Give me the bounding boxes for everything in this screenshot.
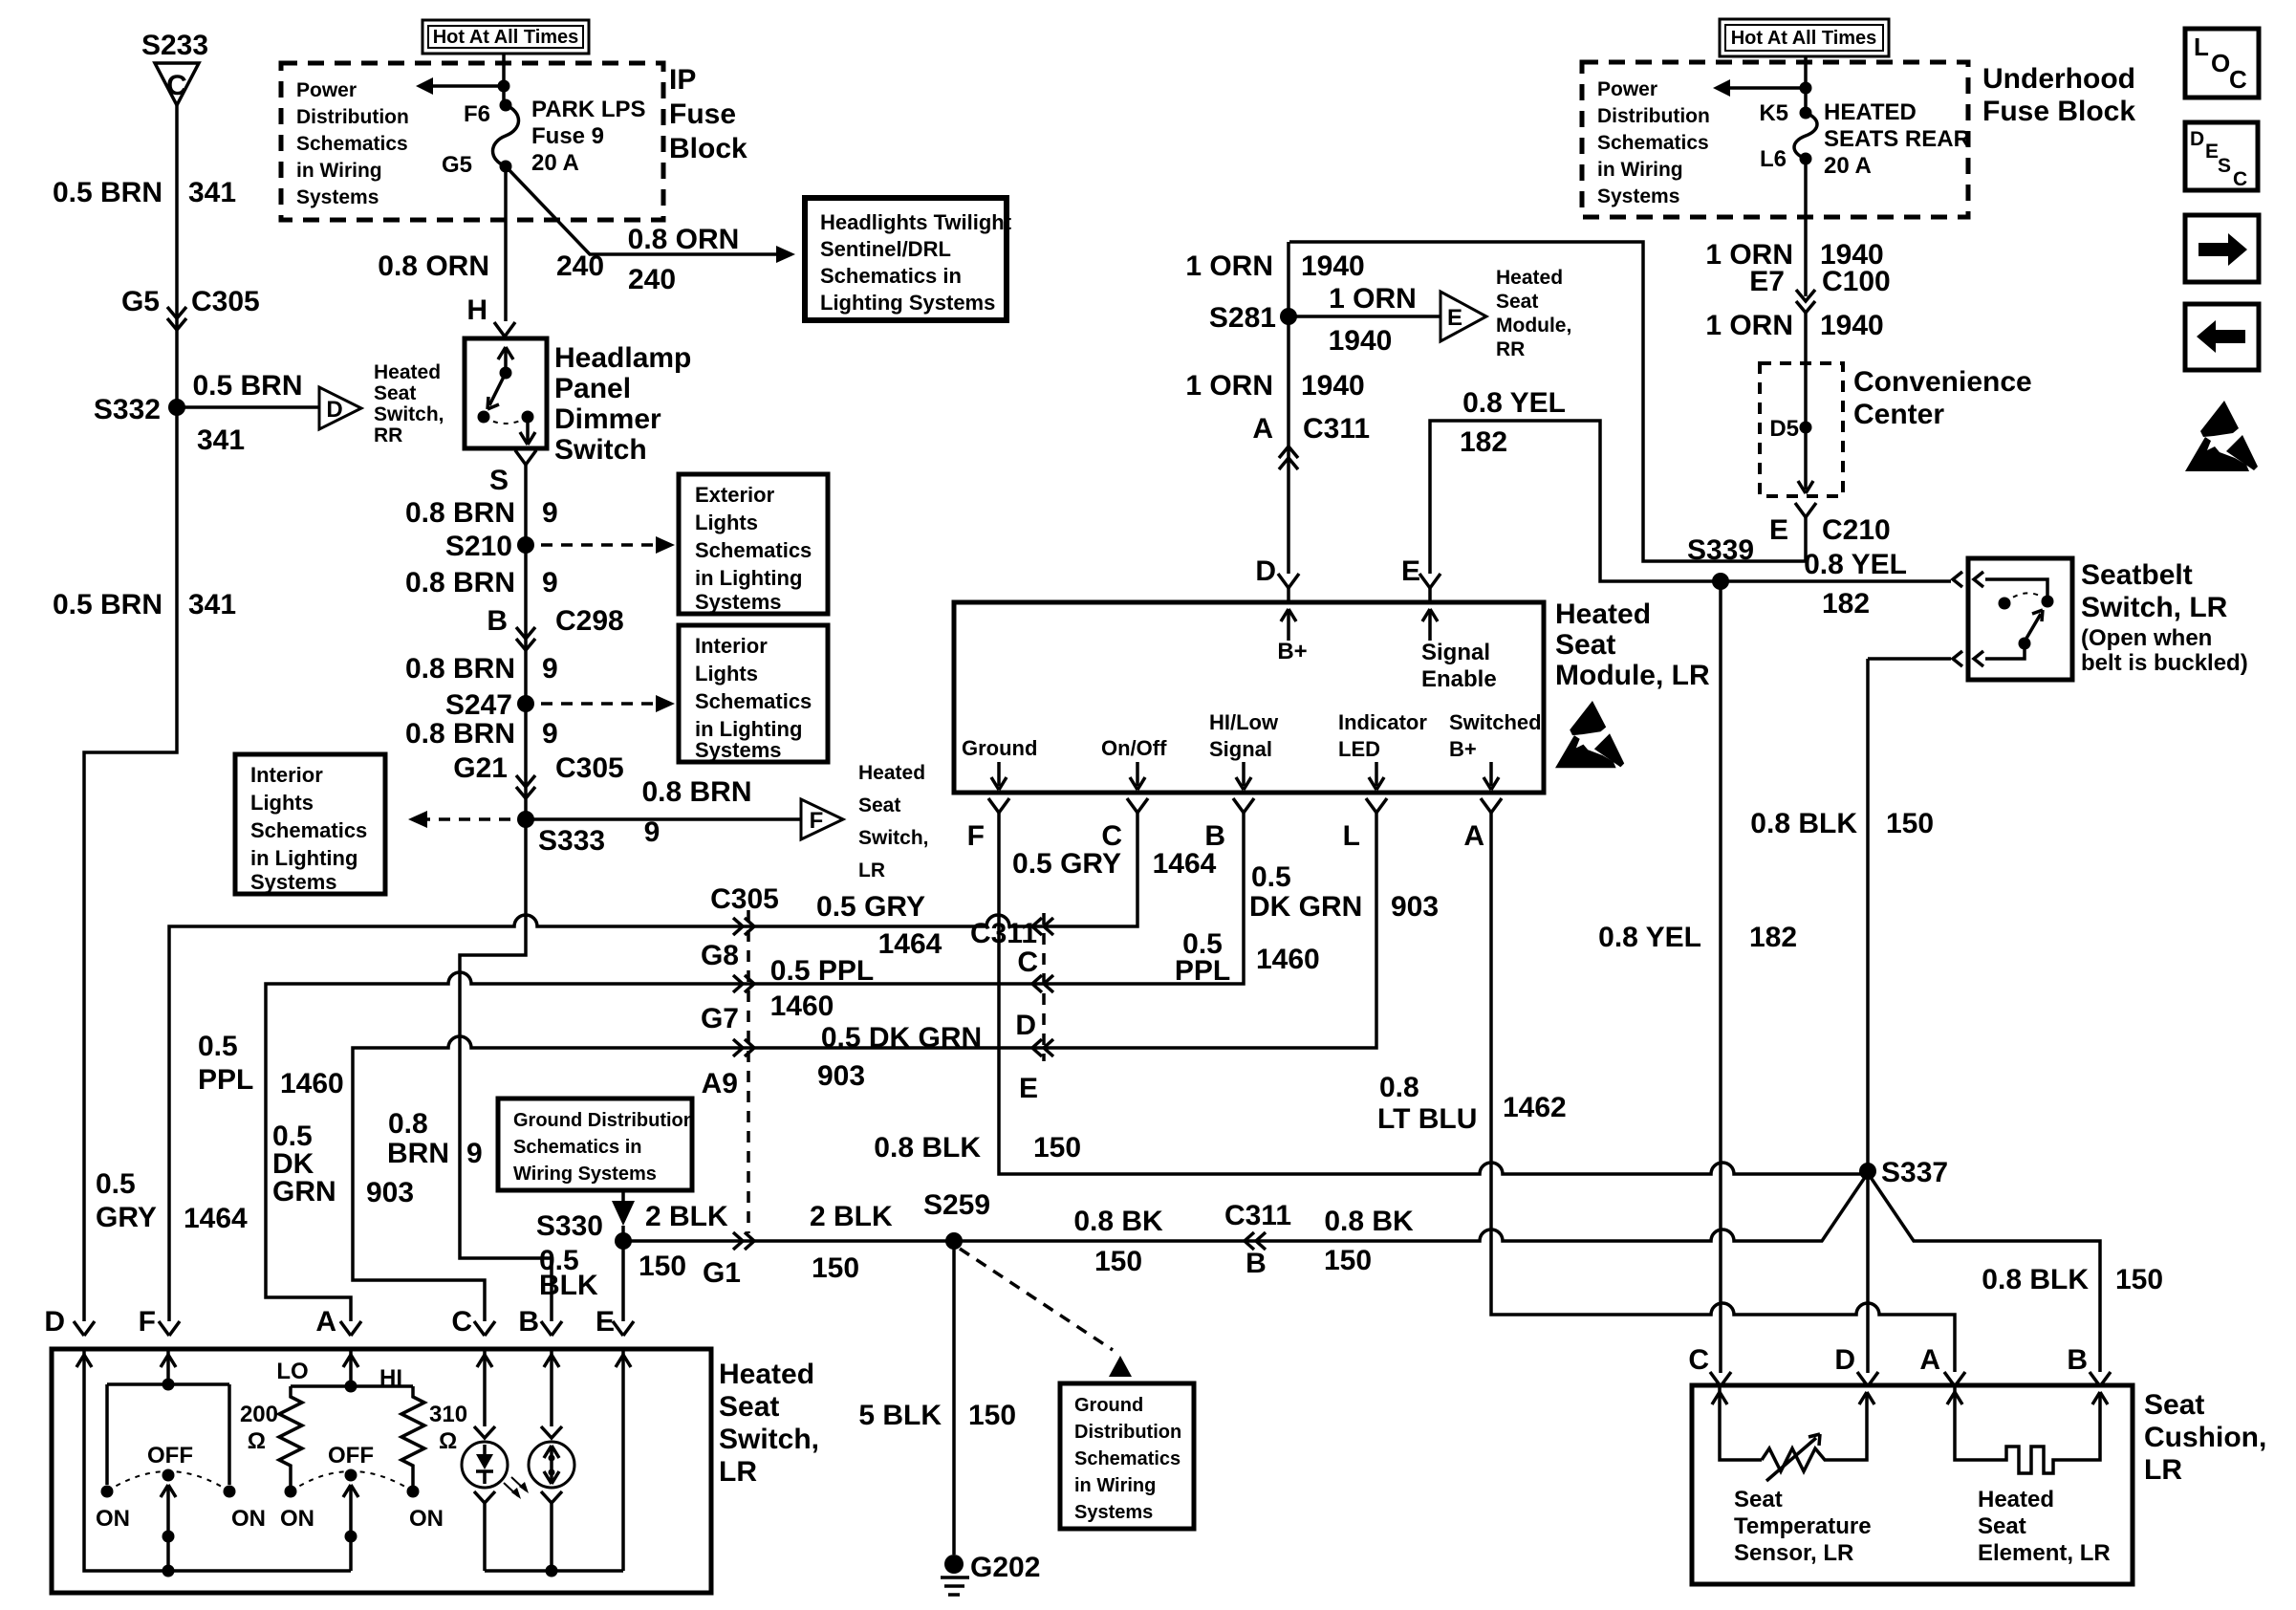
svg-text:Sentinel/DRL: Sentinel/DRL [820,237,951,261]
svg-text:Seat: Seat [374,382,416,404]
svg-text:C100: C100 [1822,266,1891,297]
svg-text:1464: 1464 [184,1203,248,1234]
svg-text:Module,: Module, [1496,315,1571,337]
svg-text:A: A [1463,820,1484,852]
svg-text:C311: C311 [1303,413,1370,445]
svg-text:9: 9 [466,1138,483,1169]
svg-text:S233: S233 [141,30,208,61]
svg-text:D: D [2190,128,2204,150]
svg-text:Switch,: Switch, [858,827,929,849]
svg-text:LED: LED [1338,737,1380,761]
svg-text:Switched: Switched [1449,710,1542,734]
svg-text:Schematics: Schematics [1597,132,1709,154]
svg-text:ON: ON [231,1506,266,1532]
svg-text:Exterior: Exterior [695,483,775,507]
svg-text:2 BLK: 2 BLK [810,1201,893,1232]
svg-text:Fuse: Fuse [669,98,736,130]
svg-text:Ω: Ω [248,1428,266,1454]
svg-text:Seat: Seat [719,1391,779,1423]
svg-text:SEATS REAR: SEATS REAR [1824,126,1970,152]
svg-text:G5: G5 [442,152,472,178]
svg-text:Sensor, LR: Sensor, LR [1734,1540,1853,1566]
svg-text:Schematics: Schematics [1074,1448,1180,1469]
svg-text:PARK LPS: PARK LPS [531,97,646,122]
svg-text:150: 150 [639,1251,686,1282]
svg-text:A: A [1252,413,1273,445]
svg-text:PPL: PPL [198,1064,253,1096]
svg-text:0.8 ORN: 0.8 ORN [378,250,489,282]
svg-text:D: D [1834,1344,1855,1376]
svg-text:0.5 DK GRN: 0.5 DK GRN [821,1022,982,1054]
svg-text:C: C [1688,1344,1709,1376]
svg-text:G1: G1 [703,1257,741,1289]
svg-text:Ω: Ω [439,1428,457,1454]
svg-text:1 ORN: 1 ORN [1185,370,1273,402]
svg-text:E: E [2205,141,2219,163]
svg-text:Heated: Heated [374,361,441,383]
svg-text:RR: RR [1496,338,1525,360]
svg-text:S281: S281 [1209,302,1276,334]
svg-text:150: 150 [968,1400,1016,1431]
svg-text:RR: RR [374,424,402,446]
svg-text:903: 903 [817,1060,865,1092]
svg-text:Element, LR: Element, LR [1978,1540,2111,1566]
svg-text:S: S [2218,155,2231,177]
svg-text:in Wiring: in Wiring [1597,159,1683,181]
svg-text:G8: G8 [701,940,739,971]
svg-text:Schematics: Schematics [296,133,408,155]
svg-text:in Wiring: in Wiring [296,160,382,182]
svg-text:LR: LR [2144,1454,2182,1486]
svg-text:0.5 GRY: 0.5 GRY [1012,848,1121,880]
svg-text:0.8 BK: 0.8 BK [1324,1206,1414,1237]
svg-text:Lights: Lights [695,511,758,534]
svg-text:200: 200 [240,1402,278,1427]
svg-text:9: 9 [542,653,558,685]
svg-text:Fuse 9: Fuse 9 [531,123,604,149]
svg-text:C: C [2233,168,2247,190]
svg-text:Systems: Systems [695,590,782,614]
svg-text:K5: K5 [1759,100,1788,126]
svg-text:GRN: GRN [272,1176,336,1207]
svg-text:Seat: Seat [858,794,900,816]
svg-text:C: C [2229,65,2247,94]
svg-text:Panel: Panel [554,373,631,404]
svg-text:E: E [1019,1073,1038,1104]
svg-text:O: O [2211,49,2230,77]
svg-text:Headlamp: Headlamp [554,342,691,374]
svg-text:LT BLU: LT BLU [1377,1103,1477,1135]
svg-text:20 A: 20 A [1824,153,1872,179]
svg-text:Module, LR: Module, LR [1555,660,1710,691]
svg-text:2 BLK: 2 BLK [645,1201,728,1232]
svg-text:C311: C311 [970,918,1037,949]
svg-text:E: E [1401,555,1420,587]
svg-text:G202: G202 [970,1552,1040,1583]
svg-text:B: B [518,1306,539,1338]
svg-text:S: S [489,465,509,496]
svg-text:PPL: PPL [1175,955,1230,987]
svg-text:Lights: Lights [250,791,314,815]
svg-text:D: D [44,1306,65,1338]
svg-text:341: 341 [188,177,236,208]
svg-text:OFF: OFF [328,1443,374,1469]
svg-text:9: 9 [542,497,558,529]
svg-text:182: 182 [1460,426,1507,458]
svg-text:903: 903 [366,1177,414,1208]
svg-text:0.8 BLK: 0.8 BLK [1982,1264,2089,1295]
svg-text:0.8: 0.8 [388,1108,428,1140]
svg-text:HI: HI [379,1365,402,1391]
svg-text:Seat: Seat [2144,1389,2204,1421]
svg-text:903: 903 [1391,891,1439,923]
svg-text:Switch, LR: Switch, LR [2081,592,2228,623]
svg-text:1 ORN: 1 ORN [1185,250,1273,282]
svg-text:Hot At All Times: Hot At All Times [1731,28,1877,49]
svg-text:1464: 1464 [1153,848,1217,880]
svg-text:1940: 1940 [1301,250,1365,282]
svg-text:Distribution: Distribution [1074,1422,1181,1443]
svg-text:A: A [315,1306,336,1338]
svg-text:Heated: Heated [719,1359,814,1390]
svg-text:1940: 1940 [1329,325,1393,357]
svg-text:0.5 BRN: 0.5 BRN [53,177,162,208]
svg-text:150: 150 [1886,808,1934,839]
svg-text:Ground Distribution: Ground Distribution [513,1110,695,1131]
svg-text:S330: S330 [536,1210,603,1242]
svg-text:1460: 1460 [770,990,834,1022]
svg-text:Indicator: Indicator [1338,710,1427,734]
svg-text:B+: B+ [1449,737,1477,761]
svg-text:S259: S259 [923,1189,990,1221]
svg-text:S332: S332 [94,394,161,425]
svg-text:LR: LR [858,859,885,881]
svg-text:Switch: Switch [554,434,647,466]
svg-text:0.5: 0.5 [96,1168,136,1200]
svg-text:Fuse Block: Fuse Block [1982,96,2135,127]
svg-text:Power: Power [1597,78,1657,100]
svg-text:150: 150 [2115,1264,2163,1295]
svg-text:E: E [596,1306,615,1338]
svg-text:Seat: Seat [1978,1513,2026,1539]
svg-text:Power: Power [296,79,357,101]
svg-text:0.8 YEL: 0.8 YEL [1462,387,1566,419]
svg-text:L: L [1343,820,1360,852]
svg-text:G7: G7 [701,1003,739,1034]
svg-text:OFF: OFF [147,1443,193,1469]
svg-text:C311: C311 [1224,1200,1291,1231]
svg-text:0.5: 0.5 [198,1031,238,1062]
svg-text:150: 150 [1324,1245,1372,1276]
svg-text:Seat: Seat [1734,1487,1783,1512]
svg-text:A9: A9 [702,1068,738,1099]
svg-text:ON: ON [96,1506,130,1532]
svg-text:in Lighting: in Lighting [250,846,357,870]
svg-text:LR: LR [719,1456,757,1488]
svg-text:1 ORN: 1 ORN [1329,283,1417,315]
svg-text:C305: C305 [710,883,779,915]
svg-text:Dimmer: Dimmer [554,403,661,435]
svg-text:182: 182 [1822,588,1870,620]
svg-text:Interior: Interior [695,634,768,658]
svg-text:0.5 PPL: 0.5 PPL [770,955,874,987]
svg-text:1 ORN: 1 ORN [1705,310,1793,341]
svg-text:F6: F6 [464,101,490,127]
svg-text:Seat: Seat [1555,629,1615,661]
svg-text:Lighting Systems: Lighting Systems [820,291,995,315]
svg-text:0.8 BRN: 0.8 BRN [641,776,751,808]
svg-text:S210: S210 [445,531,512,562]
svg-text:150: 150 [812,1252,859,1284]
svg-text:0.8 BLK: 0.8 BLK [1750,808,1857,839]
svg-text:310: 310 [429,1402,467,1427]
svg-text:IP: IP [669,64,696,96]
svg-text:Underhood: Underhood [1982,63,2135,95]
svg-text:H: H [466,294,487,326]
svg-text:D: D [1255,555,1276,587]
svg-text:0.8 YEL: 0.8 YEL [1598,922,1701,953]
svg-text:Ground: Ground [962,736,1037,760]
svg-text:S333: S333 [538,825,605,857]
svg-text:Seatbelt: Seatbelt [2081,559,2193,591]
svg-text:0.8 ORN: 0.8 ORN [628,224,740,255]
svg-text:0.8 BLK: 0.8 BLK [874,1132,981,1164]
svg-text:0.8 BRN: 0.8 BRN [405,497,515,529]
svg-text:Heated: Heated [1978,1487,2054,1512]
svg-text:L: L [2194,33,2209,61]
svg-text:LO: LO [276,1359,308,1384]
svg-text:Schematics: Schematics [250,818,367,842]
svg-text:341: 341 [188,589,236,620]
svg-text:D5: D5 [1769,416,1799,442]
svg-text:Wiring Systems: Wiring Systems [513,1164,657,1185]
svg-text:1940: 1940 [1820,310,1884,341]
svg-text:HEATED: HEATED [1824,99,1917,125]
svg-text:B+: B+ [1277,639,1307,664]
svg-text:in Wiring: in Wiring [1074,1475,1156,1496]
svg-text:1940: 1940 [1301,370,1365,402]
svg-text:Distribution: Distribution [1597,105,1710,127]
svg-text:C298: C298 [555,605,624,637]
svg-text:C210: C210 [1822,514,1891,546]
svg-text:D: D [326,397,342,423]
svg-text:G5: G5 [121,286,160,317]
svg-text:0.8 BK: 0.8 BK [1073,1206,1163,1237]
svg-text:Systems: Systems [296,186,379,208]
svg-text:Schematics: Schematics [695,538,812,562]
svg-text:9: 9 [542,718,558,750]
svg-text:Headlights Twilight: Headlights Twilight [820,210,1012,234]
svg-text:Heated: Heated [858,762,925,784]
svg-text:C305: C305 [191,286,260,317]
svg-text:Hot At All Times: Hot At All Times [433,27,579,48]
svg-text:B: B [487,605,508,637]
svg-text:Center: Center [1853,399,1944,430]
svg-text:HI/Low: HI/Low [1209,710,1279,734]
svg-text:D: D [1015,1010,1036,1041]
svg-text:Interior: Interior [250,763,323,787]
svg-text:341: 341 [197,424,245,456]
svg-text:1460: 1460 [1256,944,1320,975]
svg-text:Schematics: Schematics [695,689,812,713]
svg-text:F: F [139,1306,156,1338]
svg-text:S247: S247 [445,689,512,721]
svg-text:0.8 BRN: 0.8 BRN [405,653,515,685]
svg-text:S337: S337 [1881,1157,1948,1188]
svg-text:Distribution: Distribution [296,106,409,128]
svg-text:Systems: Systems [1074,1502,1153,1523]
svg-text:1462: 1462 [1503,1092,1567,1123]
svg-text:0.8: 0.8 [1379,1072,1419,1103]
svg-text:S339: S339 [1687,534,1754,566]
svg-text:Lights: Lights [695,662,758,685]
svg-text:0.5 GRY: 0.5 GRY [816,891,925,923]
svg-text:Temperature: Temperature [1734,1513,1872,1539]
svg-text:9: 9 [644,816,661,848]
svg-text:Block: Block [669,133,747,164]
svg-text:Heated: Heated [1496,267,1563,289]
svg-text:Systems: Systems [695,738,782,762]
svg-text:240: 240 [628,264,676,295]
svg-text:BRN: BRN [387,1138,449,1169]
svg-text:Cushion,: Cushion, [2144,1422,2266,1453]
svg-text:E: E [1447,305,1462,331]
svg-text:C: C [451,1306,472,1338]
svg-text:9: 9 [542,567,558,598]
svg-text:Signal: Signal [1421,640,1490,665]
svg-text:E: E [1769,514,1788,546]
svg-text:0.8 YEL: 0.8 YEL [1804,549,1907,580]
svg-text:G21: G21 [453,752,508,784]
svg-text:F: F [967,820,985,852]
svg-text:150: 150 [1094,1246,1142,1277]
svg-text:0.8 BRN: 0.8 BRN [405,567,515,598]
svg-text:B: B [1245,1248,1267,1279]
svg-text:(Open when: (Open when [2081,625,2212,651]
svg-text:Signal: Signal [1209,737,1272,761]
svg-text:L6: L6 [1760,146,1787,172]
svg-text:20 A: 20 A [531,150,579,176]
svg-text:C: C [1017,946,1038,978]
svg-text:BLK: BLK [539,1270,598,1301]
svg-text:GRY: GRY [96,1202,157,1233]
svg-text:1460: 1460 [280,1068,344,1099]
svg-text:in Lighting: in Lighting [695,566,802,590]
svg-text:Switch,: Switch, [719,1424,819,1455]
svg-text:Systems: Systems [1597,185,1679,207]
svg-text:Convenience: Convenience [1853,366,2032,398]
svg-text:Enable: Enable [1421,666,1497,692]
svg-text:0.5 BRN: 0.5 BRN [53,589,162,620]
svg-text:C305: C305 [555,752,624,784]
svg-text:Seat: Seat [1496,291,1538,313]
svg-text:DK GRN: DK GRN [1249,891,1362,923]
svg-text:182: 182 [1749,922,1797,953]
svg-text:F: F [810,808,824,834]
svg-text:1464: 1464 [878,928,942,960]
svg-text:150: 150 [1033,1132,1081,1164]
svg-text:0.8 BRN: 0.8 BRN [405,718,515,750]
svg-text:belt is buckled): belt is buckled) [2081,650,2248,676]
svg-text:ON: ON [280,1506,314,1532]
svg-text:E7: E7 [1749,266,1785,297]
svg-text:Schematics in: Schematics in [820,264,962,288]
svg-text:Schematics in: Schematics in [513,1137,642,1158]
svg-text:0.5: 0.5 [1251,861,1291,893]
svg-text:C: C [166,70,187,101]
svg-text:Systems: Systems [250,870,337,894]
svg-text:Ground: Ground [1074,1395,1143,1416]
svg-text:A: A [1919,1344,1940,1376]
svg-text:Switch,: Switch, [374,403,444,425]
svg-text:Heated: Heated [1555,598,1651,630]
svg-text:ON: ON [409,1506,444,1532]
svg-text:0.5 BRN: 0.5 BRN [192,370,302,402]
svg-text:On/Off: On/Off [1101,736,1167,760]
svg-text:5 BLK: 5 BLK [858,1400,942,1431]
svg-text:B: B [2067,1344,2088,1376]
